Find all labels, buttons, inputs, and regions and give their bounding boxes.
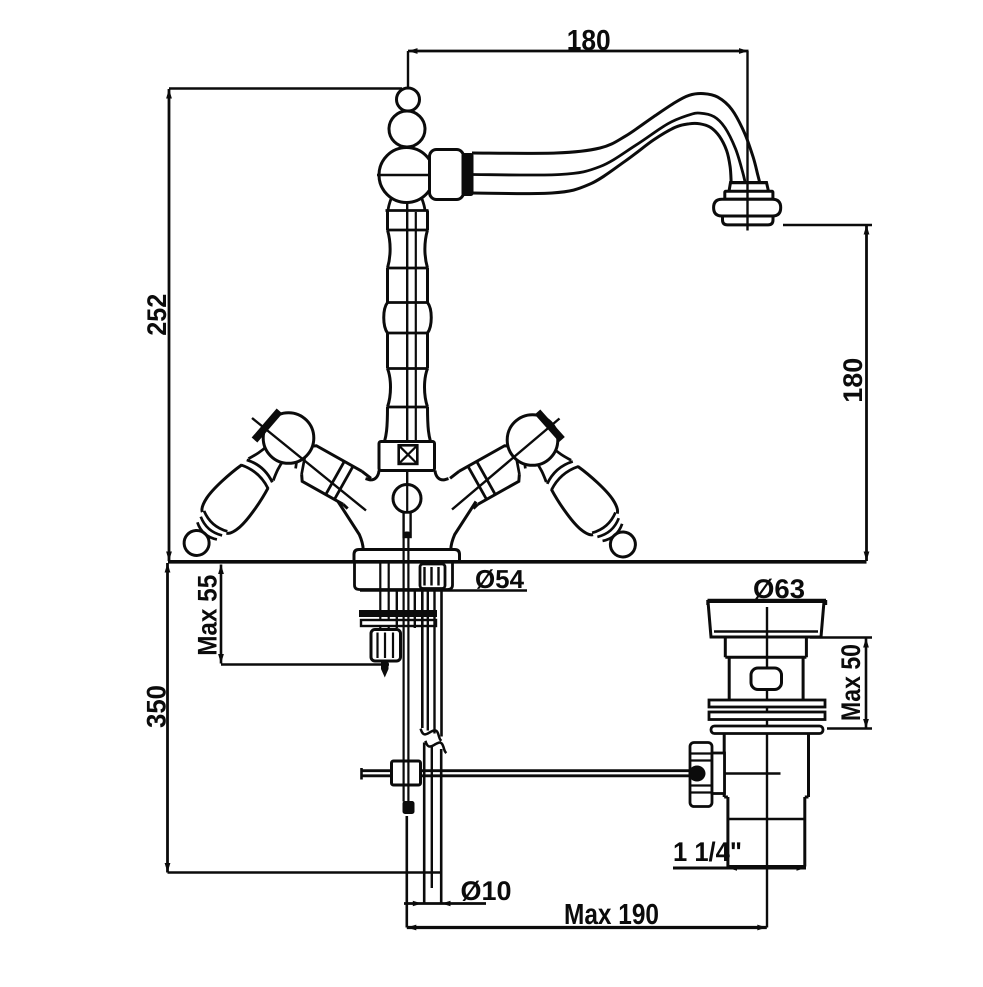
extension line top of right 180 (from spout outlet) — [783, 224, 872, 226]
left handle valve arm — [284, 438, 372, 512]
column divider d — [388, 301, 428, 304]
drain washer plate 2 — [709, 712, 825, 720]
dimension line 180 (top spout reach) — [408, 50, 749, 53]
svg-text:180: 180 — [838, 358, 868, 403]
extension line right of top 180 (through outlet) — [746, 183, 748, 231]
extension line top of 252 (to faucet top knob) — [169, 87, 402, 89]
spout upper contour — [472, 94, 760, 183]
faucet base — [354, 550, 460, 562]
pop-up rod end tip — [403, 802, 414, 814]
fixing screw symbol X — [399, 445, 418, 464]
spout middle contour — [472, 113, 745, 183]
column divider f — [388, 367, 428, 370]
right handle ball joint — [507, 415, 558, 466]
top finial small knob — [397, 88, 420, 111]
pop-up rod — [403, 537, 405, 762]
column bulge ball sides — [384, 303, 432, 334]
linkage rod — [362, 769, 690, 772]
column divider a — [386, 209, 429, 212]
base outline below deck — [355, 563, 453, 590]
drain lower body — [724, 734, 808, 798]
washer plate (thick) — [360, 611, 437, 617]
left handle ball joint — [263, 413, 314, 464]
spout outlet collar ring 1 — [729, 183, 769, 192]
spout lower contour — [472, 123, 731, 193]
tailpipe bottom edge — [728, 865, 805, 868]
column concave segment sides — [388, 230, 428, 268]
body left fillet — [366, 471, 380, 480]
extension line left of Max 190 (faucet centerline) — [405, 816, 408, 928]
svg-text:180: 180 — [567, 25, 611, 57]
washer plate 2 — [361, 620, 436, 626]
threaded shank block — [420, 564, 445, 589]
column segment 1 sides — [388, 211, 428, 231]
svg-text:Max 50: Max 50 — [836, 644, 866, 721]
drain overflow slot — [751, 668, 782, 690]
top finial middle ball — [389, 111, 425, 147]
svg-text:Ø54: Ø54 — [475, 564, 525, 594]
column divider e — [388, 332, 428, 335]
stud tip below nut — [381, 661, 389, 678]
spout junction ball — [379, 148, 434, 203]
svg-text:Ø10: Ø10 — [461, 876, 512, 906]
column concave segment 2 sides — [388, 369, 428, 408]
drain neck — [725, 637, 806, 657]
dimension line diameter 10 (supply pipe) — [404, 902, 486, 905]
pop-up lift knob circle — [393, 485, 421, 513]
right handle lever arm line — [452, 419, 560, 510]
mounting nut — [371, 630, 401, 662]
extension line left of top 180 (faucet centerline top) — [407, 51, 409, 89]
right handle valve arm — [449, 438, 537, 512]
pipe break squiggle 1 — [421, 729, 442, 741]
supply pipe upper part — [421, 590, 424, 729]
linkage ball joint (dark) — [689, 766, 706, 782]
column divider g — [388, 406, 428, 409]
spout seal ring (dark) — [463, 154, 473, 195]
column segment 3 sides — [388, 333, 428, 369]
extension line bottom of Max 50 — [827, 727, 872, 729]
svg-text:Ø63: Ø63 — [753, 574, 805, 604]
linkage clamp block — [392, 761, 421, 785]
pop-up rod lower stub — [403, 785, 405, 802]
dimension line 180 right (spout height) — [865, 225, 868, 561]
pop-up rod pin below knob — [404, 513, 411, 538]
pipe break squiggle 2 — [425, 741, 446, 753]
linkage rod left cap — [360, 768, 363, 780]
svg-text:Max 55: Max 55 — [193, 575, 223, 656]
dimension line Max 55 (deck clamping) — [220, 565, 223, 664]
dimension line 252 (height to spout) — [168, 89, 171, 561]
spout connector — [430, 150, 464, 200]
fixing screw symbol box — [399, 445, 418, 464]
svg-text:Max 190: Max 190 — [564, 899, 659, 931]
drain rubber washer — [711, 726, 823, 734]
svg-text:350: 350 — [142, 685, 172, 728]
right handle blade (dark bar) — [538, 412, 563, 440]
ball horizontal centerline — [377, 174, 430, 176]
mounting stud — [379, 563, 381, 630]
dimension line Max 50 — [865, 638, 868, 729]
supply pipe lower part — [423, 743, 426, 904]
drain rod knob — [690, 743, 712, 807]
column divider c — [388, 267, 428, 270]
column highlight line — [415, 212, 417, 440]
left handle blade (dark bar) — [255, 411, 280, 440]
leader line diameter 54 (base) — [360, 589, 527, 592]
extension line top of Max 50 — [810, 636, 872, 638]
drain washer plate 1 — [709, 700, 825, 707]
dimension line Max 190 (rod to drain) — [407, 926, 767, 929]
drain tailpipe — [728, 797, 805, 867]
tailpiece tube — [396, 590, 398, 629]
linkage rod hidden inside drain — [725, 772, 781, 774]
extension line bottom of 350 — [168, 871, 442, 873]
body right side — [451, 502, 476, 550]
drain centerline — [766, 607, 768, 928]
drain upper body — [729, 657, 803, 700]
svg-text:252: 252 — [142, 294, 172, 336]
extension line bottom of Max 55 — [221, 663, 389, 665]
body right fillet — [435, 471, 449, 480]
dimension line diameter 63 — [708, 599, 827, 602]
column neck under ball — [388, 199, 425, 211]
spout outlet collar ring 2 — [725, 191, 773, 199]
svg-text:1 1/4": 1 1/4" — [673, 837, 742, 867]
column segment 4 sides — [385, 407, 431, 442]
extension line right of top 180 (upper part) — [746, 51, 748, 183]
dimension line 350 (below-deck depth) — [166, 563, 169, 873]
column divider b — [388, 229, 428, 232]
right handle grip — [527, 440, 648, 569]
column segment 2 sides — [388, 268, 428, 303]
dimension line 1 1/4 inch (tailpipe) — [673, 867, 806, 870]
left handle grip — [171, 438, 292, 567]
faucet centerline — [406, 88, 408, 512]
spout outlet bell (stadium) — [714, 199, 781, 216]
body left side — [338, 502, 363, 550]
drain rod knob plate — [712, 753, 725, 794]
body mount block — [379, 442, 435, 471]
deck / countertop line — [168, 560, 867, 564]
drain flange — [708, 602, 824, 638]
spout outlet tip — [723, 216, 774, 225]
left handle lever arm line — [252, 418, 366, 511]
